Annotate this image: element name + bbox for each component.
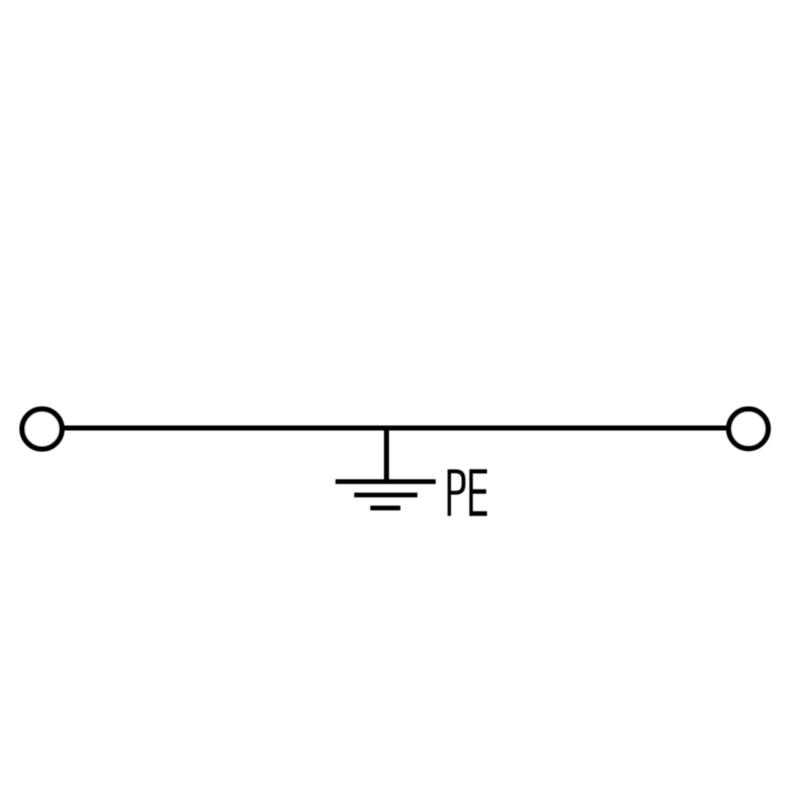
wire to ground bbox=[384, 427, 389, 482]
terminal X2 right bbox=[729, 409, 768, 448]
ground bbox=[336, 482, 436, 508]
terminal X1 left bbox=[22, 409, 62, 449]
net label PE bbox=[449, 469, 487, 516]
wire bbox=[64, 426, 727, 431]
